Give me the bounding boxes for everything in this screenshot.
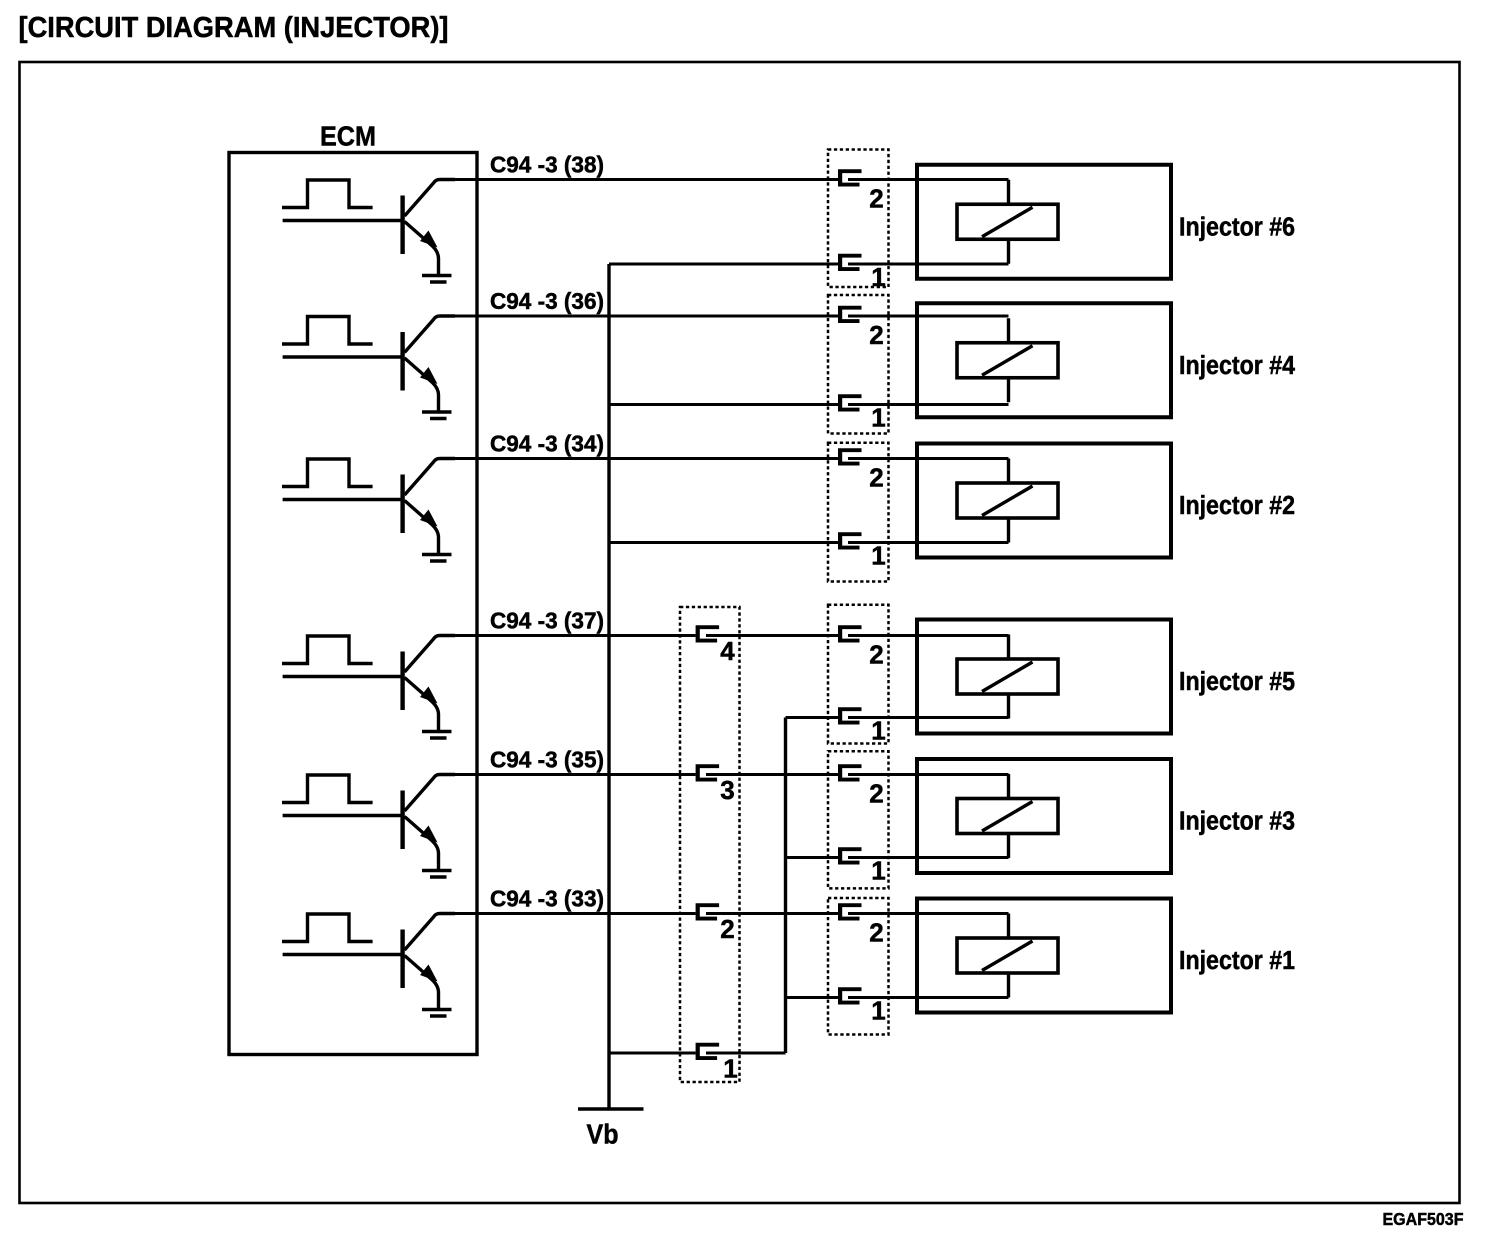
svg-text:1: 1 xyxy=(871,716,885,746)
svg-text:Injector #2: Injector #2 xyxy=(1179,492,1295,520)
svg-text:ECM: ECM xyxy=(320,121,376,152)
svg-text:Vb: Vb xyxy=(587,1119,619,1150)
svg-text:C94 -3 (37): C94 -3 (37) xyxy=(490,608,604,634)
svg-text:2: 2 xyxy=(720,914,734,944)
svg-text:1: 1 xyxy=(871,856,885,886)
svg-text:4: 4 xyxy=(720,636,735,666)
svg-text:1: 1 xyxy=(871,262,885,292)
svg-text:1: 1 xyxy=(871,541,885,571)
svg-text:1: 1 xyxy=(871,996,885,1026)
svg-text:1: 1 xyxy=(723,1054,737,1084)
svg-text:Injector #1: Injector #1 xyxy=(1179,947,1295,975)
svg-text:Injector #6: Injector #6 xyxy=(1179,213,1295,241)
svg-text:2: 2 xyxy=(869,184,883,214)
svg-text:C94 -3 (38): C94 -3 (38) xyxy=(490,152,604,178)
svg-text:2: 2 xyxy=(869,463,883,493)
svg-text:1: 1 xyxy=(871,403,885,433)
svg-text:2: 2 xyxy=(869,640,883,670)
svg-text:C94 -3 (36): C94 -3 (36) xyxy=(490,288,604,314)
svg-text:2: 2 xyxy=(869,320,883,350)
svg-text:C94 -3 (35): C94 -3 (35) xyxy=(490,747,604,773)
svg-text:C94 -3 (33): C94 -3 (33) xyxy=(490,886,604,912)
svg-text:C94 -3 (34): C94 -3 (34) xyxy=(490,431,604,457)
svg-text:Injector #3: Injector #3 xyxy=(1179,808,1295,836)
svg-text:2: 2 xyxy=(869,779,883,809)
svg-text:3: 3 xyxy=(720,775,734,805)
svg-text:Injector #4: Injector #4 xyxy=(1179,352,1296,380)
svg-text:EGAF503F: EGAF503F xyxy=(1383,1209,1464,1229)
svg-text:Injector #5: Injector #5 xyxy=(1179,668,1295,696)
svg-text:2: 2 xyxy=(869,918,883,948)
svg-text:[CIRCUIT DIAGRAM (INJECTOR)]: [CIRCUIT DIAGRAM (INJECTOR)] xyxy=(19,12,449,44)
